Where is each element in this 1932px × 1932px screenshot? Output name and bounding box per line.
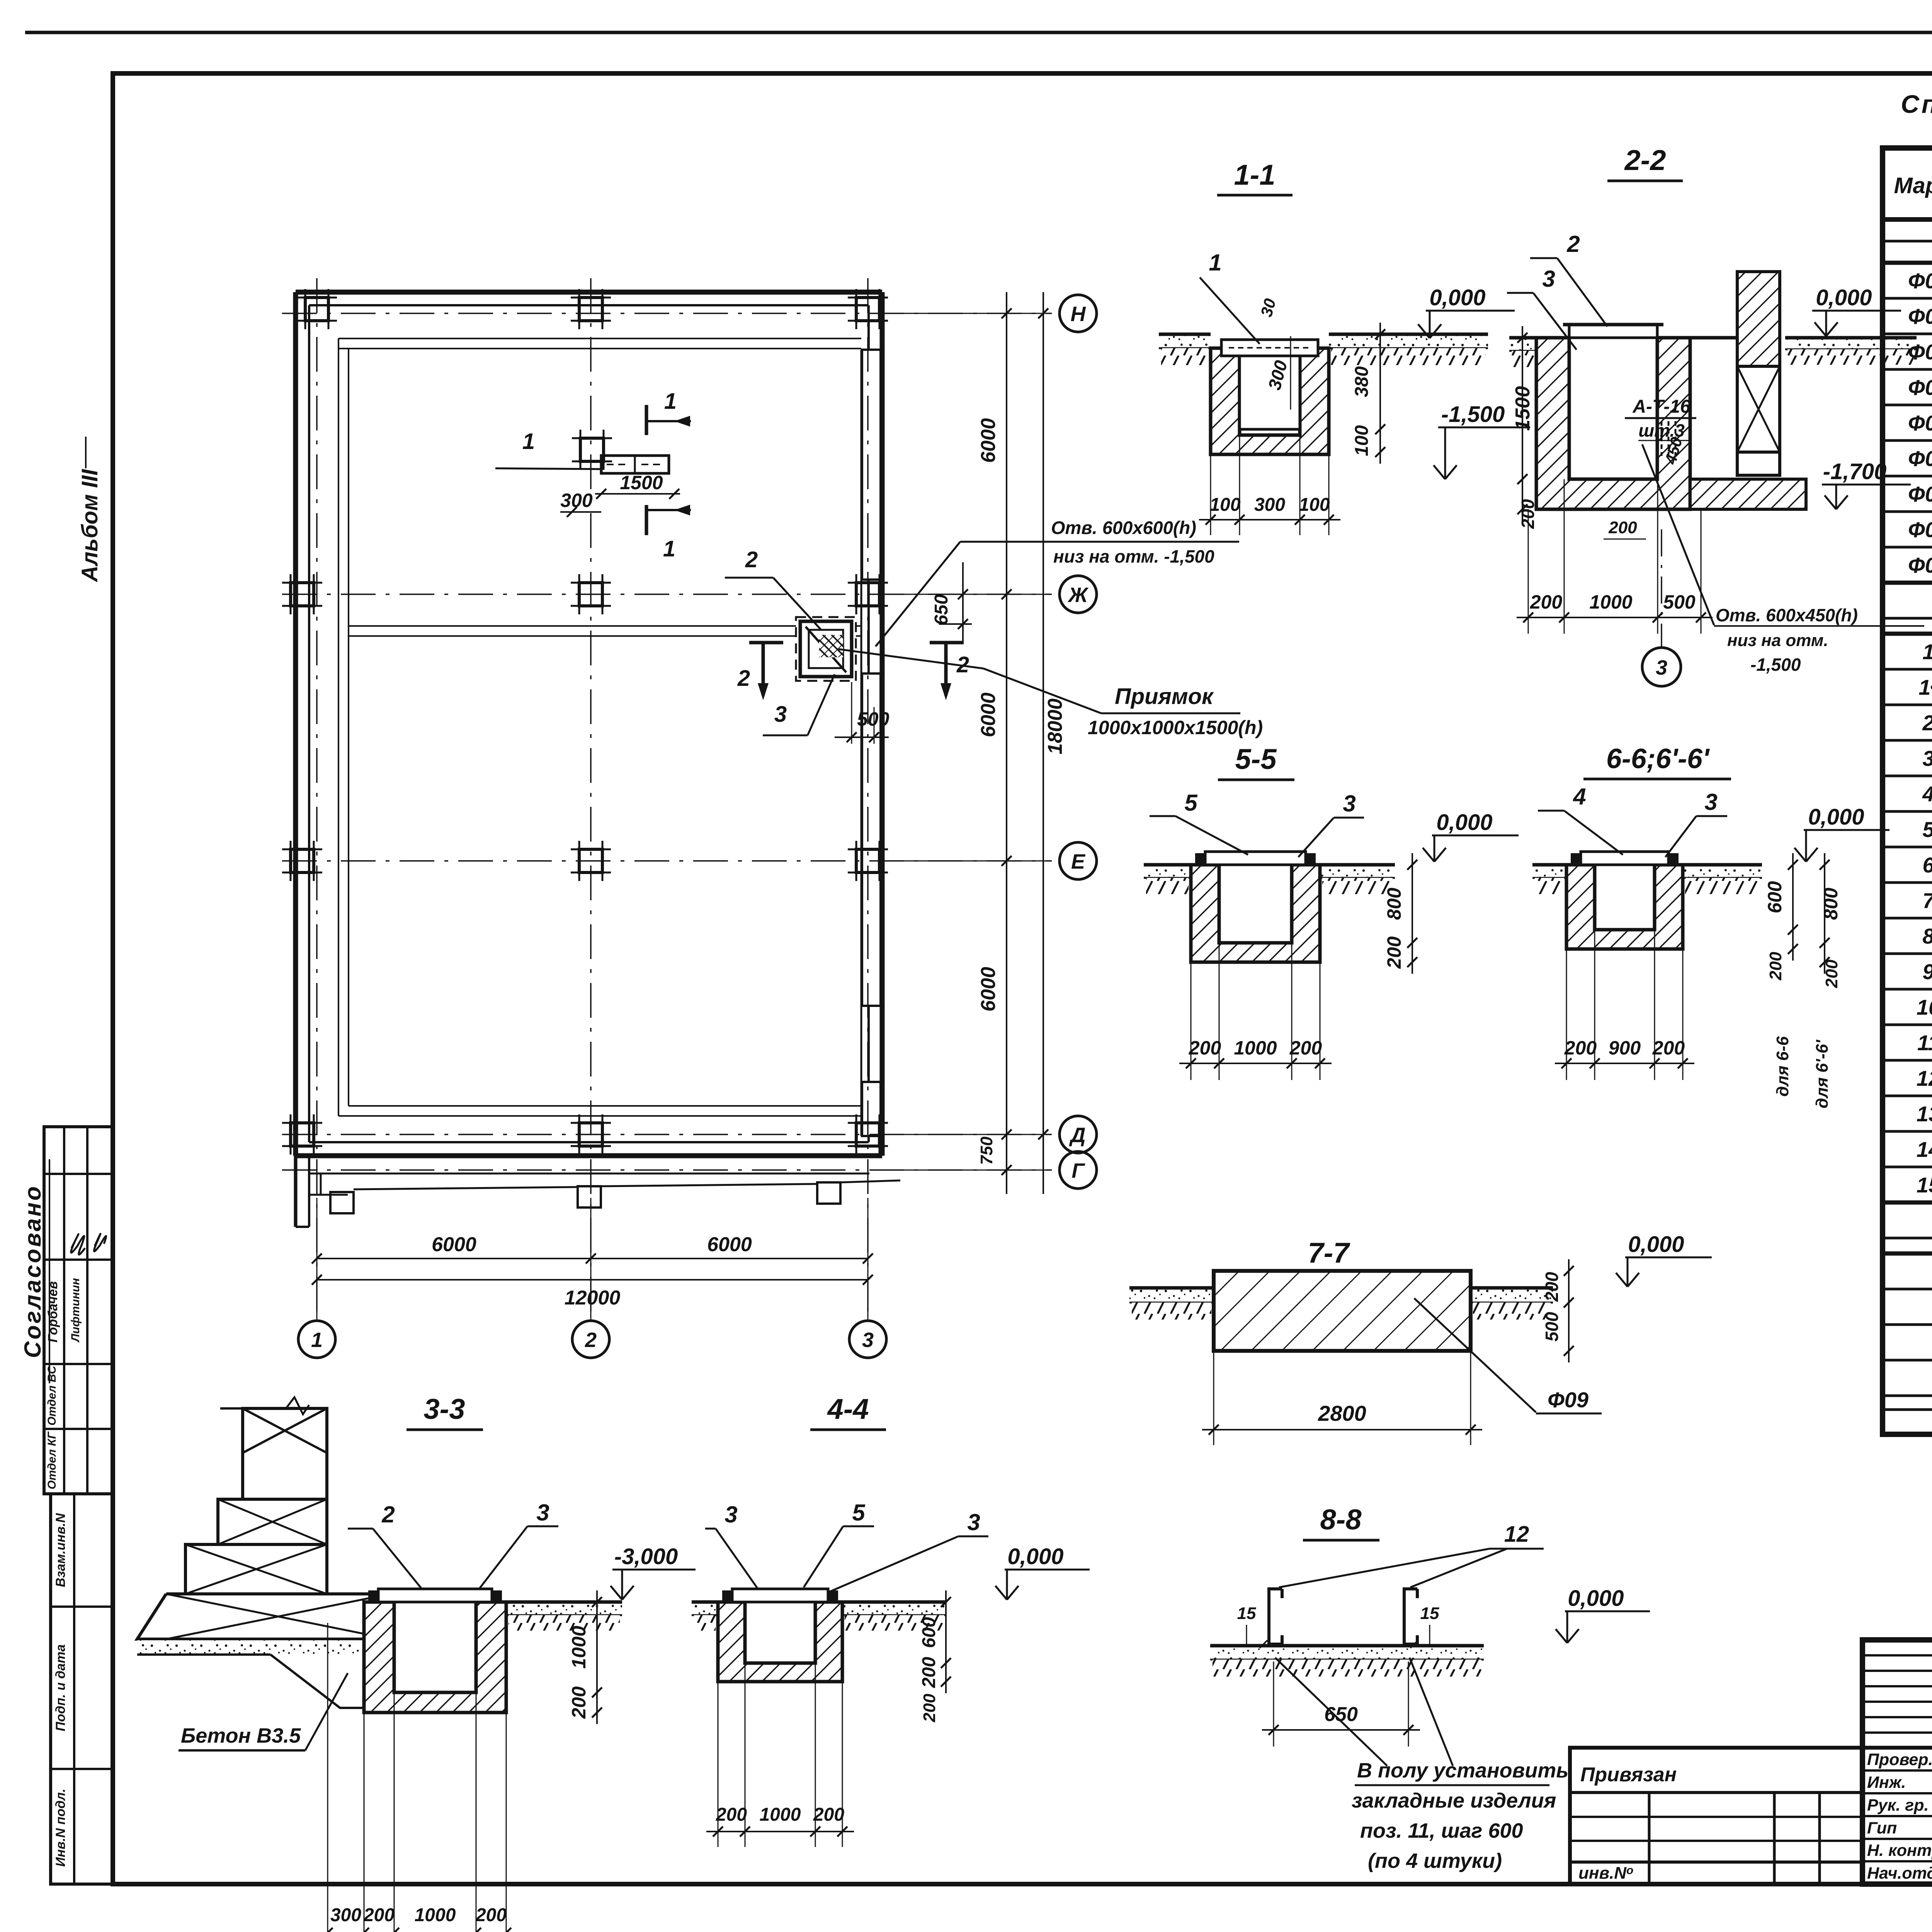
svg-text:1-1: 1-1: [1234, 159, 1276, 191]
svg-text:2: 2: [745, 547, 758, 572]
svg-text:200: 200: [1189, 1037, 1221, 1059]
svg-text:Н. контр: Н. контр: [1867, 1841, 1932, 1860]
left stamp table 2 (inventory): [51, 1494, 113, 1884]
section 1-1 bottom dims 100 300 100: [1199, 519, 1340, 520]
svg-text:Отдел КГ: Отдел КГ: [46, 1431, 58, 1490]
section 3-3 stepped foundation column: [243, 1408, 327, 1499]
svg-text:1: 1: [664, 389, 677, 414]
section 2-2 dim 1500 left rotated: [1522, 326, 1523, 491]
svg-text:3: 3: [1922, 746, 1932, 770]
floor plan: wall stub below bottom-left corner: [294, 1156, 298, 1227]
section 7-7 right floor: [1471, 1288, 1553, 1303]
section 3-3 step 3 with X: [185, 1544, 327, 1594]
svg-text:300: 300: [330, 1905, 361, 1925]
svg-text:5-5: 5-5: [1235, 743, 1277, 775]
svg-text:1: 1: [311, 1328, 323, 1352]
svg-text:Альбом III: Альбом III: [77, 469, 102, 583]
svg-text:300: 300: [1254, 495, 1285, 515]
svg-text:3: 3: [536, 1500, 549, 1526]
svg-text:Бетон В3.5: Бетон В3.5: [181, 1724, 301, 1747]
section 8-8 channel steel left: [1269, 1589, 1282, 1644]
section 2-2 column below wall (X brace): [1737, 366, 1780, 452]
svg-text:200: 200: [1608, 518, 1637, 537]
floor plan: pit cut marks 2: [749, 641, 783, 645]
svg-text:3: 3: [1656, 656, 1667, 679]
section 8-8 note leaders: [1275, 1658, 1387, 1766]
svg-text:200: 200: [1289, 1037, 1322, 1059]
section 4-4 bottom dims 200 1000 200: [706, 1831, 854, 1832]
svg-text:0,000: 0,000: [1436, 810, 1492, 835]
svg-text:12000: 12000: [565, 1287, 621, 1309]
svg-text:200: 200: [1542, 1272, 1562, 1302]
floor plan: columns: [305, 298, 328, 321]
section 2-2 left floor: [1509, 338, 1542, 351]
svg-text:низ на отм. -1,500: низ на отм. -1,500: [1053, 546, 1214, 566]
svg-text:В полу установить: В полу установить: [1357, 1759, 1568, 1782]
svg-text:5: 5: [1184, 790, 1198, 816]
svg-text:Марка: Марка: [1894, 173, 1932, 198]
привязан table: [1570, 1748, 1862, 1884]
svg-text:Привязан: Привязан: [1580, 1764, 1677, 1786]
svg-text:для 6-6: для 6-6: [1773, 1036, 1792, 1097]
svg-text:200: 200: [919, 1657, 939, 1688]
svg-text:Г: Г: [1071, 1159, 1085, 1182]
floor plan: axis circles bottom 1 2 3: [298, 1321, 335, 1358]
section 6-6 bottom dims 200 900 200: [1555, 1063, 1694, 1064]
svg-text:8: 8: [1922, 924, 1932, 948]
section 5-5 right dims 800 200: [1412, 853, 1413, 974]
section 4-4 right dims 600 200: [945, 1590, 947, 1693]
svg-text:3: 3: [1704, 789, 1717, 815]
stamp table 1 signatures: [71, 1234, 85, 1255]
svg-text:2: 2: [1922, 711, 1932, 735]
section 3-3 right dims 1000 200: [596, 1590, 598, 1724]
svg-text:6-6;6'-6': 6-6;6'-6': [1606, 743, 1710, 774]
floor plan: column at plate end: [580, 438, 604, 461]
svg-text:500: 500: [857, 708, 889, 730]
svg-text:800: 800: [1820, 888, 1842, 920]
svg-text:12: 12: [1504, 1522, 1529, 1547]
section 3-3 base trapezoid: [137, 1594, 390, 1639]
svg-text:6000: 6000: [977, 967, 1000, 1012]
svg-text:Ф05: Ф05: [1908, 411, 1932, 435]
svg-text:Взам.инв.N: Взам.инв.N: [53, 1513, 68, 1587]
section 2-2 bottom dims 200 1000 500: [1517, 617, 1713, 618]
svg-text:Ф09: Ф09: [1908, 553, 1932, 577]
svg-text:Ф08: Ф08: [1908, 517, 1932, 542]
svg-text:1000: 1000: [1589, 591, 1632, 613]
svg-text:2-2: 2-2: [1624, 144, 1666, 176]
spec table row lines: [1883, 240, 1932, 243]
svg-text:3: 3: [724, 1502, 737, 1527]
svg-text:18000: 18000: [1044, 699, 1066, 755]
svg-text:12: 12: [1917, 1066, 1932, 1090]
svg-text:3: 3: [1343, 791, 1355, 816]
floor plan: right wall inner leaf line: [861, 350, 862, 1136]
section 7-7 foundation block Ф09: [1214, 1271, 1471, 1351]
svg-text:1000: 1000: [415, 1905, 456, 1925]
section 3-3 lean concrete band: [137, 1639, 392, 1655]
section 2-2 anchor bars: [1661, 421, 1663, 456]
svg-text:Рук. гр.: Рук. гр.: [1867, 1796, 1929, 1815]
svg-text:500: 500: [1663, 591, 1696, 613]
svg-text:10: 10: [1917, 995, 1932, 1019]
svg-text:Отдел ВС: Отдел ВС: [46, 1365, 58, 1425]
svg-text:Ф02: Ф02: [1908, 304, 1932, 328]
spec table header row: [1883, 217, 1932, 222]
svg-text:600: 600: [919, 1617, 939, 1648]
svg-text:Ж: Ж: [1067, 583, 1089, 607]
section 7-7 left floor: [1129, 1288, 1214, 1303]
svg-text:поз. 11, шаг 600: поз. 11, шаг 600: [1360, 1819, 1523, 1842]
svg-text:7: 7: [1922, 888, 1932, 913]
svg-text:1: 1: [1209, 250, 1221, 276]
svg-text:0,000: 0,000: [1816, 285, 1872, 310]
svg-text:-1,500: -1,500: [1750, 655, 1801, 675]
floor plan: priamok pit: [796, 617, 856, 681]
svg-text:инв.Nо: инв.Nо: [1578, 1864, 1633, 1883]
svg-text:200: 200: [716, 1804, 747, 1825]
svg-text:650: 650: [931, 594, 952, 625]
svg-text:6000: 6000: [432, 1233, 476, 1256]
svg-text:8-8: 8-8: [1320, 1503, 1362, 1536]
svg-text:1000х1000х1500(h): 1000х1000х1500(h): [1088, 717, 1263, 738]
svg-text:Д: Д: [1069, 1124, 1086, 1147]
svg-text:3-3: 3-3: [424, 1393, 465, 1425]
section 3-3 step 2 with X: [218, 1499, 327, 1544]
svg-text:4: 4: [1922, 782, 1932, 806]
section 3-3 pit: [506, 1602, 622, 1615]
floor plan: bottom overall dim 12000: [317, 1279, 868, 1281]
section 1-1 floor and trench: [1159, 334, 1211, 348]
svg-text:(по 4 штуки): (по 4 штуки): [1368, 1849, 1502, 1872]
floor plan: channel run to pit near axis Ж: [349, 625, 800, 627]
floor plan: outer walls: [296, 290, 882, 295]
svg-text:380: 380: [1352, 366, 1372, 397]
floor plan: right wall channel strips: [862, 350, 881, 580]
svg-text:3: 3: [862, 1328, 874, 1352]
svg-text:Гип: Гип: [1867, 1819, 1897, 1837]
svg-text:2: 2: [737, 666, 750, 691]
svg-text:200: 200: [1383, 936, 1405, 969]
svg-text:100: 100: [1299, 495, 1330, 515]
floor plan: pos.1 embedded plate: [601, 456, 669, 473]
svg-text:Ф06: Ф06: [1908, 446, 1932, 471]
floor plan: right dimension chain 6000/6000/6000/750: [1006, 292, 1007, 1194]
svg-text:1500: 1500: [1512, 386, 1534, 431]
section 2-2 trench: [1536, 338, 1690, 509]
svg-text:Приямок: Приямок: [1115, 684, 1214, 709]
svg-text:600: 600: [1764, 881, 1786, 913]
section 1-1 inner pocket: [1240, 356, 1300, 429]
section 2-2 floor right of wall: [1785, 338, 1917, 349]
section 4-4 floor and trench: [692, 1602, 718, 1615]
floor plan: cut mark 1 upper: [645, 405, 648, 435]
section 1-1 right dims 380 100: [1379, 323, 1381, 464]
svg-text:0,000: 0,000: [1429, 285, 1485, 310]
svg-text:4-4: 4-4: [827, 1393, 869, 1425]
svg-text:Н: Н: [1071, 303, 1086, 326]
section 5-5 floor and trench: [1144, 865, 1191, 878]
svg-text:750: 750: [977, 1136, 996, 1165]
svg-text:3: 3: [774, 702, 787, 727]
svg-text:1000: 1000: [760, 1804, 801, 1825]
section 8-8 dim 650: [1262, 1729, 1420, 1731]
svg-text:Ф03: Ф03: [1908, 340, 1932, 364]
svg-text:-1,500: -1,500: [1441, 402, 1505, 427]
section 7-7 right dims 200 500: [1568, 1259, 1570, 1362]
svg-text:Инв.N подл.: Инв.N подл.: [53, 1789, 68, 1867]
section 7-7 dim 2800: [1202, 1429, 1482, 1430]
svg-text:100: 100: [1352, 425, 1372, 456]
svg-text:1000: 1000: [1234, 1037, 1277, 1059]
svg-text:Инж.: Инж.: [1867, 1773, 1906, 1792]
svg-text:Ф04: Ф04: [1908, 375, 1932, 400]
section 6-6 right dims 600 / 800 two chains: [1792, 853, 1794, 961]
svg-text:200: 200: [568, 1686, 590, 1719]
floor plan: cut mark 1 lower: [645, 505, 648, 535]
section 2-2 wall above (hatched): [1737, 272, 1780, 366]
svg-text:200: 200: [475, 1905, 507, 1925]
svg-text:Провер.: Провер.: [1867, 1750, 1932, 1769]
svg-text:Нач.отд: Нач.отд: [1867, 1864, 1932, 1883]
section 2-2 right floor stub: [1690, 336, 1737, 340]
svg-text:Горбачев: Горбачев: [46, 1281, 60, 1343]
section 2-2 axis circle 3: [1642, 648, 1681, 686]
svg-text:закладные изделия: закладные изделия: [1352, 1789, 1556, 1812]
svg-text:15: 15: [1237, 1604, 1256, 1623]
svg-text:1500: 1500: [620, 472, 663, 493]
svg-text:200: 200: [813, 1804, 844, 1825]
svg-text:Отв. 600х600(h): Отв. 600х600(h): [1051, 517, 1196, 538]
svg-text:-3,000: -3,000: [614, 1544, 678, 1569]
svg-text:Ф07: Ф07: [1908, 482, 1932, 506]
title block outer: [1862, 1640, 1932, 1884]
svg-text:3: 3: [967, 1509, 980, 1535]
section 5-5 bottom dims 200 1000 200: [1179, 1063, 1332, 1064]
section 2-2 base slab right extension: [1690, 479, 1806, 509]
svg-text:низ на отм.: низ на отм.: [1727, 631, 1828, 650]
svg-text:15: 15: [1420, 1604, 1439, 1623]
svg-text:800: 800: [1383, 888, 1405, 920]
svg-text:200: 200: [363, 1905, 395, 1925]
svg-text:13: 13: [1917, 1102, 1932, 1126]
svg-text:0,000: 0,000: [1628, 1232, 1684, 1257]
svg-text:5: 5: [1922, 817, 1932, 842]
spec table outer border: [1883, 148, 1932, 1434]
svg-text:2: 2: [585, 1328, 597, 1352]
svg-text:4: 4: [1573, 784, 1586, 810]
svg-text:6000: 6000: [977, 418, 1000, 463]
section 2-2 grating pos.2 on top: [1569, 325, 1657, 338]
svg-text:0,000: 0,000: [1007, 1544, 1063, 1569]
svg-text:Ф09: Ф09: [1548, 1388, 1588, 1412]
svg-text:5: 5: [852, 1500, 866, 1526]
svg-text:15: 15: [1917, 1173, 1932, 1197]
left stamp table 1 (approvals): [44, 1127, 113, 1494]
svg-text:500: 500: [1542, 1312, 1562, 1342]
svg-text:Лифтинин: Лифтинин: [69, 1278, 82, 1342]
svg-text:200: 200: [1652, 1037, 1685, 1059]
svg-text:1а: 1а: [1918, 675, 1932, 699]
svg-text:200: 200: [1564, 1037, 1597, 1059]
svg-text:1: 1: [1922, 639, 1932, 664]
section 6-6 floor and trench: [1532, 865, 1566, 878]
svg-text:200: 200: [920, 1694, 939, 1723]
floor plan: bottom dimension chain 6000 6000: [317, 1258, 868, 1259]
title block personnel rows: [1862, 1769, 1932, 1772]
svg-text:3: 3: [1542, 266, 1555, 292]
floor plan: axis circles right H Ж Е Д Г: [1060, 295, 1097, 332]
svg-text:Ф01: Ф01: [1908, 269, 1932, 293]
svg-text:Согласовано: Согласовано: [20, 1184, 46, 1358]
section 8-8 floor slab: [1210, 1646, 1484, 1660]
svg-text:Отв. 600х450(h): Отв. 600х450(h): [1716, 605, 1858, 625]
svg-text:Подп. и дата: Подп. и дата: [53, 1644, 68, 1731]
floor plan: extension lines right: [885, 313, 1052, 314]
svg-text:200: 200: [1766, 952, 1785, 981]
svg-text:1000: 1000: [568, 1626, 590, 1668]
svg-text:6000: 6000: [977, 692, 1000, 737]
svg-text:1: 1: [522, 429, 535, 454]
title block small stacked rows: [1862, 1654, 1932, 1656]
svg-text:2800: 2800: [1318, 1401, 1366, 1425]
svg-text:6: 6: [1922, 853, 1932, 877]
svg-text:0,000: 0,000: [1808, 804, 1864, 830]
sheet outer top edge line: [25, 31, 1932, 34]
section 8-8 channel steel right: [1404, 1589, 1417, 1644]
floor plan: dim 650 right of pit: [962, 562, 964, 641]
svg-text:6000: 6000: [707, 1233, 752, 1256]
floor plan: foundation strip below axis Г: [309, 1173, 869, 1175]
svg-text:14: 14: [1917, 1137, 1932, 1162]
svg-text:7-7: 7-7: [1308, 1237, 1351, 1269]
svg-text:-1,700: -1,700: [1823, 459, 1886, 484]
svg-text:2: 2: [381, 1502, 395, 1527]
svg-text:Е: Е: [1071, 850, 1086, 873]
svg-text:1: 1: [663, 536, 675, 561]
section 2-2 dim 200 left: [1522, 468, 1523, 521]
floor plan: right overall dim 18000: [1043, 292, 1044, 1194]
svg-text:100: 100: [1209, 495, 1240, 515]
svg-text:9: 9: [1922, 959, 1932, 984]
svg-text:200: 200: [1530, 591, 1563, 613]
floor plan: grid axis dash-dot lines: [316, 278, 318, 1321]
floor plan: underground channel double lines: [338, 338, 861, 339]
svg-text:А-Т-16: А-Т-16: [1632, 396, 1690, 417]
section 1-1 embedded plate pos.1: [1221, 340, 1318, 356]
svg-text:2: 2: [1566, 231, 1580, 257]
svg-text:для 6'-6': для 6'-6': [1813, 1039, 1832, 1109]
svg-text:0,000: 0,000: [1568, 1586, 1624, 1611]
svg-text:Спецификация к схеме расположе: Спецификация к схеме расположения фундам…: [1901, 90, 1932, 118]
svg-text:900: 900: [1609, 1037, 1641, 1059]
svg-text:11: 11: [1917, 1031, 1932, 1055]
svg-text:200: 200: [1822, 959, 1841, 988]
